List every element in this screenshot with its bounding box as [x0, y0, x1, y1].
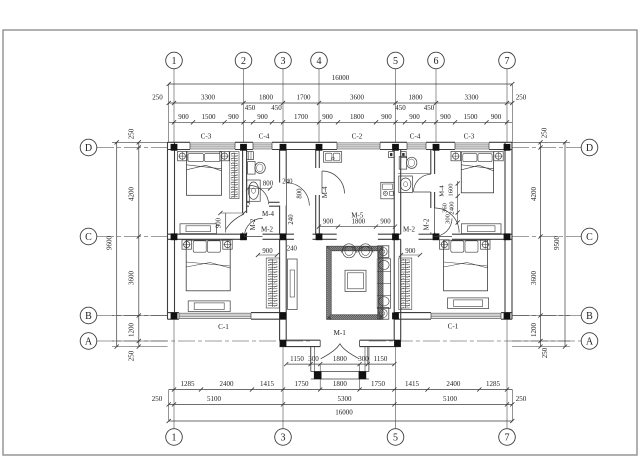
- svg-text:450: 450: [271, 104, 282, 112]
- svg-text:3600: 3600: [530, 271, 538, 286]
- svg-text:M-1: M-1: [334, 329, 347, 337]
- svg-text:2400: 2400: [448, 201, 455, 215]
- svg-text:C-2: C-2: [352, 133, 363, 141]
- svg-text:1415: 1415: [405, 380, 420, 388]
- svg-text:300: 300: [308, 355, 319, 363]
- svg-text:900: 900: [178, 113, 189, 121]
- svg-text:7: 7: [505, 56, 510, 67]
- svg-text:800: 800: [297, 188, 304, 199]
- svg-text:4200: 4200: [530, 187, 538, 202]
- svg-text:1800: 1800: [350, 113, 365, 121]
- svg-text:900: 900: [491, 113, 502, 121]
- svg-text:D: D: [586, 143, 593, 154]
- svg-text:A: A: [586, 336, 594, 347]
- svg-text:3: 3: [281, 56, 286, 67]
- svg-text:1200: 1200: [128, 323, 136, 338]
- svg-text:9500: 9500: [553, 236, 561, 251]
- svg-text:1200: 1200: [530, 323, 538, 338]
- svg-text:3600: 3600: [350, 94, 365, 102]
- svg-text:900: 900: [257, 113, 268, 121]
- svg-text:1750: 1750: [295, 380, 310, 388]
- svg-text:5100: 5100: [207, 395, 222, 403]
- svg-text:250: 250: [152, 94, 163, 102]
- svg-text:5: 5: [393, 56, 398, 67]
- svg-text:D: D: [85, 143, 92, 154]
- svg-text:240: 240: [287, 245, 298, 252]
- svg-text:900: 900: [409, 113, 420, 121]
- svg-text:7: 7: [505, 432, 510, 443]
- svg-text:3: 3: [281, 432, 286, 443]
- svg-text:250: 250: [516, 395, 527, 403]
- svg-text:250: 250: [541, 347, 549, 358]
- svg-text:C-1: C-1: [218, 323, 229, 331]
- svg-text:1150: 1150: [374, 355, 388, 363]
- svg-text:6: 6: [434, 56, 439, 67]
- svg-text:M-4: M-4: [439, 185, 446, 197]
- svg-text:900: 900: [381, 113, 392, 121]
- svg-text:M-2: M-2: [424, 218, 431, 230]
- svg-text:900: 900: [262, 248, 273, 255]
- svg-text:900: 900: [323, 218, 334, 225]
- svg-text:1500: 1500: [202, 113, 217, 121]
- svg-text:5100: 5100: [443, 395, 458, 403]
- svg-text:1: 1: [172, 56, 177, 67]
- svg-text:5: 5: [393, 432, 398, 443]
- svg-text:C-4: C-4: [259, 133, 270, 141]
- svg-text:3300: 3300: [465, 94, 480, 102]
- svg-text:3600: 3600: [128, 271, 136, 286]
- svg-text:1800: 1800: [352, 218, 366, 225]
- svg-text:C: C: [586, 232, 593, 243]
- svg-text:240: 240: [288, 214, 295, 225]
- svg-text:3300: 3300: [201, 94, 216, 102]
- svg-text:C-4: C-4: [410, 133, 421, 141]
- svg-text:M-2: M-2: [261, 225, 274, 233]
- svg-text:C-1: C-1: [448, 323, 459, 331]
- svg-text:900: 900: [322, 113, 333, 121]
- svg-text:900: 900: [380, 218, 391, 225]
- svg-text:900: 900: [228, 113, 239, 121]
- svg-text:1150: 1150: [290, 355, 304, 363]
- svg-text:2400: 2400: [446, 380, 461, 388]
- svg-text:240: 240: [282, 178, 293, 185]
- svg-text:900: 900: [216, 217, 223, 228]
- svg-text:B: B: [586, 311, 593, 322]
- svg-text:C-3: C-3: [201, 133, 212, 141]
- svg-text:M-4: M-4: [322, 186, 329, 198]
- svg-text:250: 250: [128, 128, 136, 139]
- svg-text:250: 250: [516, 94, 527, 102]
- svg-text:450: 450: [395, 104, 406, 112]
- svg-text:1415: 1415: [260, 380, 275, 388]
- svg-text:1800: 1800: [333, 355, 348, 363]
- svg-text:250: 250: [541, 127, 549, 138]
- svg-text:16000: 16000: [332, 74, 350, 82]
- svg-text:1285: 1285: [181, 380, 196, 388]
- svg-text:1600: 1600: [447, 183, 454, 197]
- svg-text:1800: 1800: [333, 380, 348, 388]
- svg-text:C: C: [85, 232, 92, 243]
- svg-text:4: 4: [317, 56, 322, 67]
- svg-text:2: 2: [241, 56, 246, 67]
- svg-text:250: 250: [128, 350, 136, 361]
- svg-text:C-3: C-3: [464, 133, 475, 141]
- svg-text:M-2: M-2: [403, 225, 416, 233]
- svg-text:2400: 2400: [220, 380, 235, 388]
- svg-text:1800: 1800: [259, 94, 274, 102]
- svg-text:250: 250: [152, 395, 163, 403]
- svg-text:A: A: [85, 336, 93, 347]
- svg-text:1285: 1285: [486, 380, 501, 388]
- svg-text:1750: 1750: [371, 380, 386, 388]
- svg-text:B: B: [85, 311, 92, 322]
- svg-text:1700: 1700: [297, 94, 312, 102]
- svg-text:1800: 1800: [409, 94, 424, 102]
- svg-text:M-2: M-2: [250, 218, 257, 230]
- svg-text:9600: 9600: [106, 236, 114, 251]
- svg-text:450: 450: [245, 104, 256, 112]
- svg-text:900: 900: [405, 248, 416, 255]
- svg-text:450: 450: [424, 104, 435, 112]
- svg-text:1700: 1700: [294, 113, 309, 121]
- svg-text:900: 900: [440, 113, 451, 121]
- svg-text:300: 300: [445, 213, 452, 224]
- svg-text:1500: 1500: [464, 113, 479, 121]
- svg-text:M-4: M-4: [262, 210, 275, 218]
- svg-text:5300: 5300: [338, 395, 353, 403]
- svg-text:16000: 16000: [335, 409, 353, 417]
- svg-text:4200: 4200: [128, 187, 136, 202]
- svg-text:1: 1: [172, 432, 177, 443]
